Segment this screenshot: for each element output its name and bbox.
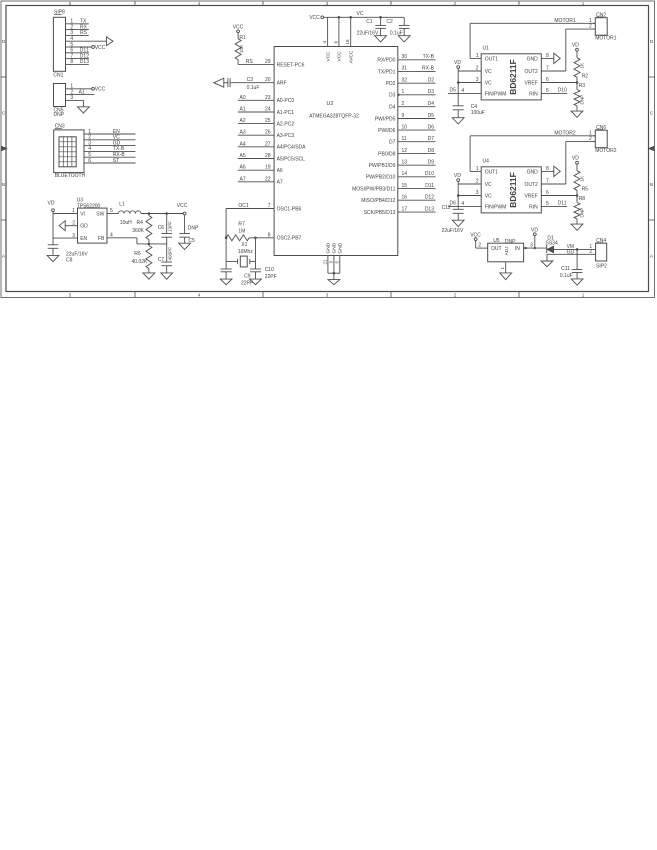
svg-text:A0: A0: [240, 95, 246, 101]
capacitor C3 0.1uF: [224, 77, 274, 91]
svg-text:D7: D7: [389, 140, 396, 146]
diode D1 SS34: [546, 235, 558, 253]
wire U3 FB pin4 to divider: [107, 233, 167, 244]
svg-text:1K: 1K: [580, 62, 585, 69]
CN1 pin numbers: [70, 19, 73, 66]
svg-text:A1-PC1: A1-PC1: [277, 110, 295, 116]
svg-text:29: 29: [265, 59, 271, 65]
U3 pin1 number: [72, 208, 75, 214]
resistor R8 DNP: [574, 196, 585, 225]
svg-text:D6: D6: [428, 124, 435, 130]
junction VD/VC U4: [457, 194, 460, 197]
wire U2 net D3: [398, 89, 436, 95]
resistor R2: [574, 51, 588, 82]
svg-text:C12: C12: [442, 205, 451, 211]
svg-text:31: 31: [402, 66, 408, 72]
capacitor C4 100uF: [453, 104, 485, 118]
ground under C4: [452, 118, 464, 124]
svg-text:RESET-PC6: RESET-PC6: [277, 62, 305, 68]
svg-text:12: 12: [402, 148, 408, 154]
junction at C6 top: [165, 212, 168, 215]
resistor R1 10K: [235, 33, 246, 60]
ground under C5: [179, 243, 191, 249]
svg-text:RS: RS: [80, 30, 88, 36]
wire VD down to IN rail: [534, 236, 536, 249]
svg-text:SCK/PB5/D13: SCK/PB5/D13: [364, 210, 396, 216]
svg-text:VC: VC: [485, 182, 492, 188]
wire CN1 pin4: [69, 40, 107, 42]
ground under C10: [250, 279, 262, 285]
svg-text:18: 18: [345, 39, 350, 45]
connector CN4 (SIP2): [596, 238, 608, 270]
svg-text:21: 21: [323, 259, 328, 265]
wire net D6 (FIN/PWM): [448, 201, 481, 207]
svg-text:ST: ST: [113, 158, 119, 164]
CN2 pin numbers: [589, 18, 592, 30]
wire U2 net A4: [238, 141, 274, 147]
wire net D10 (RIN): [541, 88, 567, 94]
svg-text:A6: A6: [240, 165, 246, 171]
mcu U2 ATMEGA328TQFP-32: [274, 47, 398, 256]
ground under C11: [571, 279, 583, 285]
svg-text:100uF: 100uF: [471, 110, 485, 116]
wire U2 net D2: [398, 78, 436, 84]
inductor L1: [118, 202, 141, 226]
wire U2 net D6: [398, 124, 436, 130]
wire U3 EN pin3: [53, 233, 78, 239]
svg-text:1: 1: [402, 89, 405, 95]
CN5 pin numbers: [70, 84, 73, 102]
wire net GD: [547, 249, 596, 261]
svg-text:VCC: VCC: [337, 51, 343, 62]
connector CN2: [593, 12, 617, 41]
svg-text:11: 11: [402, 136, 407, 142]
wire U2 net D5: [398, 113, 436, 119]
svg-text:B: B: [650, 182, 653, 187]
resistor R4 360K: [132, 214, 152, 244]
U2 GND pin names: [326, 242, 344, 253]
wire U2 GND pins: [328, 256, 340, 280]
svg-text:VCC: VCC: [309, 15, 320, 21]
power VD at R5: [572, 156, 579, 165]
svg-text:14: 14: [402, 171, 408, 177]
svg-text:C1: C1: [366, 19, 373, 25]
svg-text:R3: R3: [579, 83, 586, 89]
wire net OC1: [226, 203, 274, 261]
svg-text:9: 9: [402, 113, 405, 119]
wire U2 net D11: [398, 183, 436, 189]
svg-text:A4: A4: [240, 141, 246, 147]
svg-text:D12: D12: [425, 195, 434, 201]
svg-text:1M: 1M: [238, 228, 245, 234]
svg-text:C8: C8: [66, 258, 73, 264]
svg-text:FB: FB: [98, 236, 105, 242]
power VCC at U5: [470, 233, 481, 241]
svg-text:MOTOR1: MOTOR1: [554, 18, 576, 24]
svg-text:PD2: PD2: [386, 81, 396, 87]
svg-text:VI: VI: [80, 212, 85, 218]
driver U4 BD6211F: [481, 159, 541, 213]
svg-text:RIN: RIN: [529, 204, 538, 210]
svg-text:D2: D2: [428, 78, 435, 84]
svg-text:3: 3: [530, 243, 533, 249]
svg-text:ATMEGA328TQFP-32: ATMEGA328TQFP-32: [309, 113, 359, 119]
power VD at R2: [572, 43, 579, 52]
ground under U5 ADJ: [500, 273, 512, 280]
svg-text:PWI/D6: PWI/D6: [378, 128, 395, 134]
power VCC at CN1 pin5: [92, 45, 106, 51]
module CN3 BLUETOOTH: [54, 124, 87, 179]
wire VD rail U1: [458, 69, 481, 106]
svg-text:BD6211F: BD6211F: [508, 59, 518, 94]
svg-text:U4: U4: [483, 159, 490, 165]
svg-text:U5: U5: [493, 238, 500, 244]
wire U2 net D4: [398, 101, 436, 107]
connector CN1 (SIP8): [53, 10, 69, 79]
wire CN3 pin5 net RX-B: [87, 152, 136, 158]
capacitor C8: [48, 245, 89, 264]
svg-text:VREF: VREF: [524, 194, 537, 200]
svg-text:D4: D4: [389, 105, 396, 111]
junction at U2 pin D3: [397, 94, 399, 96]
wire CN3 pin6 net ST: [87, 158, 136, 164]
wire net D11 (RIN): [541, 201, 567, 207]
svg-text:D10: D10: [558, 88, 567, 94]
power VD at U4: [454, 173, 461, 182]
svg-text:VREF: VREF: [524, 81, 537, 87]
ground under C9: [220, 279, 232, 285]
svg-text:4: 4: [110, 233, 113, 239]
svg-text:R5: R5: [582, 187, 589, 193]
svg-text:16Mhz: 16Mhz: [238, 249, 254, 255]
svg-text:OC1: OC1: [238, 203, 249, 209]
wire SW node to VCC: [141, 213, 183, 215]
svg-text:CN4: CN4: [596, 238, 606, 244]
wire U2 net D8: [398, 148, 436, 154]
junction OSC1 branch: [225, 237, 228, 240]
U2 GND pin numbers: [323, 259, 340, 265]
wire CN1 pin8 net D13: [69, 59, 89, 65]
svg-text:A2: A2: [240, 118, 246, 124]
svg-text:VCC: VCC: [95, 45, 106, 51]
svg-text:PW/PB1/D9: PW/PB1/D9: [369, 163, 396, 169]
power VCC output of U3: [177, 203, 188, 215]
junction at C1: [379, 16, 382, 19]
svg-text:C3: C3: [247, 77, 254, 83]
wire CN5 pin2 net A1: [69, 89, 94, 95]
junction FB node: [148, 243, 151, 246]
svg-text:A6: A6: [277, 168, 283, 174]
svg-text:A5/PC5/SCL: A5/PC5/SCL: [277, 156, 306, 162]
svg-text:ADJ: ADJ: [504, 246, 510, 256]
svg-text:OSC2-PB7: OSC2-PB7: [277, 236, 302, 242]
capacitor C7: [158, 244, 173, 273]
wire U5 ADJ pin1: [500, 262, 506, 273]
svg-text:MOSI/PW/PB3/D11: MOSI/PW/PB3/D11: [352, 187, 395, 193]
svg-text:A3-PC3: A3-PC3: [277, 133, 295, 139]
svg-text:VCC: VCC: [325, 51, 331, 62]
svg-text:PWI/PD5: PWI/PD5: [375, 116, 396, 122]
regulator U3 TPS62200: [77, 198, 107, 244]
svg-text:D7: D7: [428, 136, 435, 142]
svg-text:400PF: 400PF: [168, 247, 173, 261]
svg-text:BD6211F: BD6211F: [508, 172, 518, 207]
svg-text:MOTOR2: MOTOR2: [554, 130, 576, 136]
svg-text:1: 1: [500, 267, 505, 270]
resistor R3 DNP: [574, 83, 585, 112]
wire U2 net D7: [398, 136, 436, 142]
junction at C11: [576, 248, 579, 251]
wire CN1 pin2 net RX: [69, 24, 89, 30]
svg-text:TX/PD1: TX/PD1: [378, 69, 396, 75]
wire CN3 pin1 net EN: [87, 129, 136, 135]
svg-text:AVCC: AVCC: [348, 50, 354, 64]
svg-text:RX-B: RX-B: [422, 66, 435, 72]
svg-text:GND: GND: [527, 169, 539, 175]
svg-text:U1: U1: [483, 46, 490, 52]
svg-text:D5: D5: [450, 88, 457, 94]
svg-text:2: 2: [72, 220, 75, 226]
svg-text:D13: D13: [425, 206, 434, 212]
wire CN1 pin3 net RS: [69, 30, 89, 36]
ground under C12: [452, 220, 464, 226]
ground under C1: [375, 36, 387, 42]
svg-text:MOTOR1: MOTOR1: [595, 36, 617, 42]
svg-text:C2: C2: [386, 19, 393, 25]
power VD at U3 input: [48, 200, 55, 211]
power VD at D1: [531, 228, 538, 236]
U2 right pin numbers and names: [352, 54, 407, 216]
svg-text:A3: A3: [240, 130, 246, 136]
ground under R3: [571, 111, 583, 117]
CN3 pin numbers: [88, 129, 91, 164]
svg-text:TX-B: TX-B: [423, 54, 435, 60]
capacitor C6: [158, 214, 173, 244]
junction VC rail 1: [338, 16, 341, 19]
power VCC at CN5 pin1: [92, 87, 106, 93]
svg-text:VC: VC: [485, 81, 492, 87]
junction VREF U4: [576, 194, 579, 197]
svg-text:VD: VD: [572, 156, 579, 162]
capacitor C1 22uF/16V: [357, 17, 386, 36]
svg-text:R8: R8: [579, 196, 586, 202]
svg-text:13: 13: [402, 160, 408, 166]
svg-text:5: 5: [110, 208, 113, 214]
svg-text:6: 6: [333, 41, 338, 44]
regulator U5 DNP: [488, 238, 524, 262]
capacitor C11 0.1uF: [560, 249, 583, 279]
svg-text:MOTOR2: MOTOR2: [595, 148, 617, 154]
svg-text:PW/PB2/D10: PW/PB2/D10: [366, 175, 396, 181]
U4 pin numbers: [461, 166, 549, 207]
svg-text:OUT1: OUT1: [485, 56, 499, 62]
wire U2 net A0: [238, 95, 274, 101]
wire VD rail to VI/C8: [53, 212, 78, 245]
svg-text:BLUETOOTH: BLUETOOTH: [55, 173, 86, 179]
wire U5 IN to VD: [524, 243, 547, 249]
svg-text:C11: C11: [561, 266, 570, 272]
resistor R7 1M: [226, 221, 249, 241]
capacitor C10 22PF: [250, 261, 277, 279]
svg-text:0.1uF: 0.1uF: [560, 273, 573, 279]
svg-text:1: 1: [72, 208, 75, 214]
wire VREF U1: [541, 82, 577, 84]
svg-text:VCC: VCC: [95, 87, 106, 93]
wire VC rail: [324, 11, 405, 46]
junction at R4 top: [148, 212, 151, 215]
svg-text:A0-PC0: A0-PC0: [277, 98, 295, 104]
junction VREF U1: [576, 81, 579, 84]
wire U2 net A3: [238, 130, 274, 136]
junction VD/D1 node: [534, 247, 536, 249]
svg-text:D4: D4: [428, 101, 435, 107]
svg-text:2: 2: [589, 24, 592, 30]
ground under R6: [143, 273, 155, 279]
U2 VCC pin names: [325, 50, 354, 64]
svg-text:22uF/16V: 22uF/16V: [442, 228, 464, 234]
svg-text:OUT: OUT: [491, 246, 502, 252]
svg-text:R7: R7: [238, 221, 245, 227]
ground arrow at U4 GND: [541, 166, 560, 176]
svg-text:15: 15: [402, 183, 408, 189]
ground at GD: [541, 261, 553, 267]
svg-text:DNP: DNP: [580, 208, 585, 218]
svg-text:10uH: 10uH: [120, 220, 132, 226]
ground arrow at U1 GND: [541, 53, 560, 63]
svg-text:VC: VC: [357, 11, 364, 17]
ground arrow at ARF: [214, 78, 224, 87]
svg-text:0.1uF: 0.1uF: [247, 85, 260, 91]
svg-text:CN6: CN6: [596, 125, 606, 131]
resistor R6 40.02K: [132, 246, 152, 273]
svg-text:FIN/PWM: FIN/PWM: [485, 204, 507, 210]
capacitor C9 22PF: [221, 261, 253, 286]
wire U2 net A2: [238, 118, 274, 124]
wire U2 net TX-B: [398, 54, 436, 60]
wire U2 net D10: [398, 171, 436, 177]
svg-text:A4/PC4/SDA: A4/PC4/SDA: [277, 145, 307, 151]
svg-text:A5: A5: [240, 153, 246, 159]
wire CN1 pin5: [69, 46, 92, 48]
svg-text:360K: 360K: [132, 228, 144, 234]
wire VREF U4: [541, 195, 577, 197]
resistor R5: [574, 164, 588, 195]
svg-text:DNP: DNP: [54, 112, 65, 118]
svg-text:FIN/PWM: FIN/PWM: [485, 91, 507, 97]
wire U2 net A7: [238, 176, 274, 182]
svg-text:SW: SW: [96, 212, 104, 218]
wire U2 net D12: [398, 195, 436, 201]
svg-text:GND: GND: [326, 242, 332, 253]
svg-text:2: 2: [589, 136, 592, 142]
svg-text:10: 10: [402, 124, 408, 130]
svg-text:D10: D10: [425, 171, 434, 177]
wire U2 net RX-B: [398, 66, 436, 72]
svg-text:DNP: DNP: [580, 95, 585, 105]
ground under C8: [47, 255, 59, 261]
power VCC at R1: [233, 25, 244, 33]
svg-text:C9: C9: [244, 273, 251, 279]
svg-text:GND: GND: [527, 56, 539, 62]
wire U3 SW pin5: [107, 208, 118, 214]
connector CN5 (DNP): [54, 84, 70, 119]
U1 pin numbers: [461, 53, 549, 94]
svg-text:DNP: DNP: [188, 226, 199, 232]
svg-text:16: 16: [402, 195, 408, 201]
svg-text:IN: IN: [515, 246, 520, 252]
wire CN1 pin7 net D12: [69, 53, 89, 59]
svg-text:R4: R4: [137, 220, 144, 226]
svg-text:3: 3: [72, 233, 75, 239]
svg-text:MISO/PB4/D12: MISO/PB4/D12: [361, 198, 395, 204]
wire CN3 pin4 net TX-B: [87, 146, 136, 152]
svg-text:3: 3: [329, 261, 334, 264]
svg-text:R1: R1: [239, 35, 246, 41]
svg-text:D5: D5: [428, 113, 435, 119]
capacitor C5 DNP: [179, 215, 199, 244]
svg-text:2: 2: [478, 243, 481, 249]
ground under C7: [161, 273, 173, 279]
wire U2 net A5: [238, 153, 274, 159]
junction GND node: [333, 272, 336, 275]
svg-text:DNP: DNP: [505, 239, 516, 245]
svg-text:32: 32: [402, 78, 408, 84]
svg-text:D13: D13: [80, 59, 89, 65]
svg-text:A7: A7: [240, 176, 246, 182]
svg-text:A7: A7: [277, 180, 283, 186]
CN4 pin numbers: [589, 244, 592, 255]
capacitor C12 22uF/16V: [442, 205, 464, 234]
svg-text:OUT2: OUT2: [524, 69, 538, 75]
wire net VM: [554, 244, 596, 250]
svg-text:2: 2: [402, 101, 405, 107]
svg-text:A2-PC2: A2-PC2: [277, 122, 295, 128]
wire CN3 pin3 net GD: [87, 140, 136, 146]
wire OSC2 to R7: [249, 237, 274, 239]
ground under R8: [571, 224, 583, 230]
CN6 pin numbers: [589, 130, 592, 142]
wire OUT2 U4 to CN6: [541, 142, 595, 184]
svg-text:OSC1-PB6: OSC1-PB6: [277, 206, 302, 212]
svg-text:C6: C6: [158, 225, 165, 231]
wire VD rail U4: [458, 182, 481, 210]
wire net D5 (FIN/PWM): [448, 88, 481, 94]
svg-text:RS: RS: [246, 59, 254, 65]
capacitor C2 0.1uF: [386, 17, 409, 36]
U2 left pin numbers and names: [265, 59, 306, 242]
svg-text:U2: U2: [327, 101, 334, 107]
svg-text:D8: D8: [428, 148, 435, 154]
svg-text:VC: VC: [485, 69, 492, 75]
svg-text:GND: GND: [332, 242, 338, 253]
wire VCC to U5 OUT: [476, 241, 488, 249]
svg-text:10K: 10K: [239, 44, 244, 53]
ground under C2: [398, 36, 410, 42]
ground at CN5 pin3: [78, 107, 90, 113]
wire CN1 pin1 net TX: [69, 19, 89, 25]
svg-text:22PF: 22PF: [265, 274, 277, 280]
driver U1 BD6211F: [481, 46, 541, 100]
svg-text:VCC: VCC: [177, 203, 188, 209]
svg-text:X1: X1: [241, 242, 247, 248]
svg-text:D9: D9: [428, 160, 435, 166]
svg-text:1K: 1K: [580, 175, 585, 182]
svg-text:D3: D3: [389, 93, 396, 99]
connector CN6: [593, 125, 617, 154]
svg-text:VD: VD: [454, 173, 461, 179]
svg-text:VD: VD: [572, 43, 579, 49]
svg-text:13PF: 13PF: [168, 221, 173, 232]
